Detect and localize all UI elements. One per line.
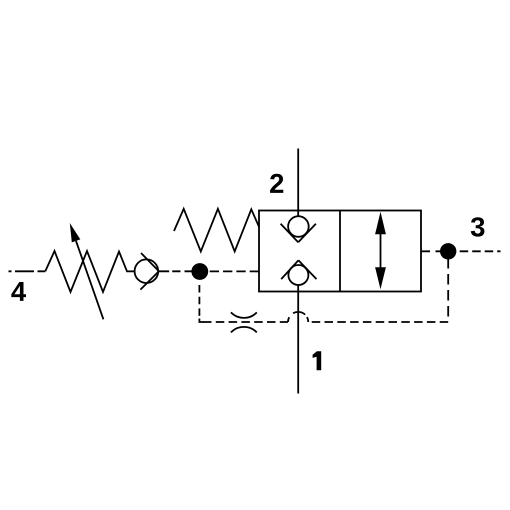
junction drop line (dashed) (198, 285, 200, 318)
valve body rectangle (259, 211, 421, 292)
port 3 stub from body (421, 250, 441, 252)
flow arrow head down (375, 267, 386, 289)
label port 2 (270, 174, 283, 193)
flow arrow head up (375, 212, 386, 235)
port 3 junction dot (440, 243, 456, 259)
check valve bottom seat (281, 260, 316, 279)
port 3 dashed line right (460, 250, 501, 252)
port 4 dashed line (9, 270, 46, 272)
label port 1 (313, 351, 322, 370)
pilot check valve ball (135, 259, 159, 283)
restrictor orifice bottom arc (231, 327, 257, 332)
valve body divider (339, 211, 341, 292)
pilot spring (top) (174, 209, 259, 252)
adjustment arrow head (70, 223, 81, 242)
check valve top seat (281, 224, 316, 242)
wire: junction to valve body (dashed) (210, 270, 259, 272)
corner piece at junction drop (199, 319, 203, 323)
restrictor orifice top arc (231, 312, 257, 317)
pilot line down from port 3 dot (dashed) (447, 258, 449, 321)
line hop over port 1 line (dashed arc) (288, 312, 308, 322)
junction J1 dot (191, 263, 208, 280)
pilot check valve seat (140, 253, 159, 290)
port 1 line (297, 285, 299, 394)
wire: seat to junction (solid stub then dashes) (159, 270, 192, 272)
label port 3 (471, 217, 485, 236)
flow direction arrow shaft (380, 232, 382, 269)
check valve bottom ball (288, 265, 308, 285)
check valve top ball (288, 216, 309, 237)
pilot line bottom horizontal left segment (dashed) (203, 321, 288, 323)
pilot line bottom horizontal right segment (dashed) (309, 321, 449, 323)
label port 4 (11, 282, 26, 301)
port 2 line (297, 149, 299, 217)
adjustable spring (port 4 relief spring) (45, 251, 134, 292)
adjustment arrow shaft (76, 241, 103, 319)
